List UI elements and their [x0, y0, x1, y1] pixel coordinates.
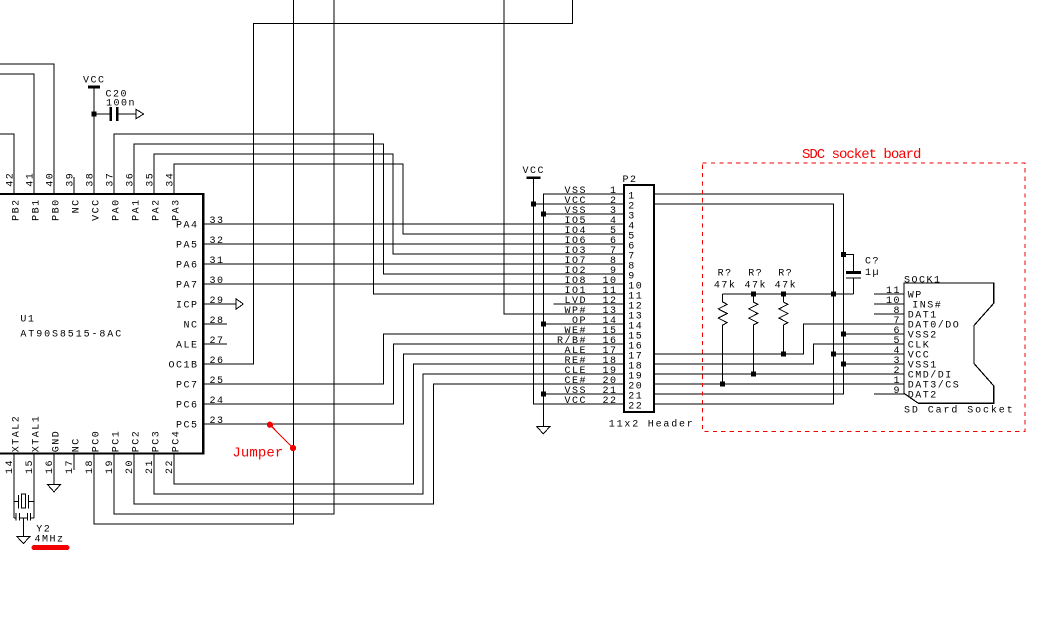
node junction pin38/C20: [92, 112, 97, 117]
node junction R2 bottom: [751, 372, 756, 377]
wire P2 row 12 LVD stub: [553, 303, 622, 305]
node junction VCC row 2: [531, 202, 536, 207]
svg-text:PB0: PB0: [52, 198, 63, 221]
svg-text:24: 24: [210, 396, 225, 407]
svg-text:26: 26: [210, 356, 225, 367]
capacitor plates of resonator left: [16, 513, 19, 520]
svg-text:ALE: ALE: [176, 341, 199, 352]
node junction VSS / VSS1: [841, 362, 846, 367]
wire socket VSS2 from VSS rail: [843, 333, 904, 335]
wire P2 row 3 VSS: [543, 213, 623, 215]
wire PC3 pin 21 to header CLE row 19: [154, 374, 623, 494]
wire SOCK1 WP stub: [874, 293, 904, 295]
node junction VCC / socket VCC: [831, 352, 836, 357]
svg-text:22: 22: [603, 396, 618, 407]
svg-text:4MHz: 4MHz: [35, 535, 65, 546]
wire C? top lead: [843, 254, 853, 271]
jumper dot on PC5 wire: [267, 422, 273, 428]
red underline below 4MHz: [34, 545, 67, 550]
svg-text:32: 32: [210, 236, 225, 247]
wire NC pin 39 stub: [73, 177, 75, 194]
wire PA0 pin 37 to header IO1 row 11: [114, 134, 623, 294]
wire PA4 pin 33 to header IO5 row 4: [203, 223, 623, 225]
node junction VSS / C? top: [841, 252, 846, 257]
wire SOCK1 DAT2 stub: [874, 393, 904, 395]
svg-text:SD Card Socket: SD Card Socket: [904, 405, 1015, 417]
svg-text:1µ: 1µ: [865, 268, 880, 279]
wire PA3 pin 34 to header IO4 row 5: [174, 164, 623, 234]
wire VSS rail left of P2 rows 1-21 to ground: [543, 194, 623, 427]
jumper dot on PC0 wire: [290, 445, 296, 451]
svg-text:22: 22: [628, 402, 643, 413]
wire PC6 pin 24 to header R/B# row 16: [203, 344, 623, 404]
node junction VSS row 21: [541, 392, 546, 397]
svg-text:9: 9: [894, 386, 902, 397]
svg-text:PA6: PA6: [176, 261, 199, 272]
wire ALE pin 27 stub: [203, 343, 227, 345]
ground arrow at pin 16: [48, 485, 61, 492]
wire P2 row 19 right to socket CMD/DI: [655, 373, 904, 375]
ground arrow below P2: [537, 427, 550, 434]
svg-text:39: 39: [66, 172, 77, 187]
svg-text:PA0: PA0: [112, 198, 123, 221]
wire VCC pin 38 up to VCC symbol: [93, 87, 95, 194]
open arrow at C20 right: [136, 109, 143, 118]
wire P2 row 21 VSS: [543, 393, 623, 395]
svg-text:PC0: PC0: [92, 430, 103, 453]
capacitor C? plate thin: [846, 277, 861, 279]
svg-text:PA4: PA4: [176, 221, 199, 232]
wire XTAL2 pin 14 to resonator: [13, 454, 15, 519]
IC U1 AT90S8515-8AC body: [0, 194, 203, 454]
node junction R3 top: [781, 292, 786, 297]
svg-text:PB1: PB1: [32, 198, 43, 221]
svg-text:DAT2: DAT2: [908, 391, 938, 402]
svg-text:30: 30: [210, 276, 225, 287]
svg-text:R?: R?: [718, 268, 733, 279]
wire PB1 pin 41 to left edge: [0, 74, 34, 194]
svg-text:PC4: PC4: [172, 430, 183, 453]
wire P2 row 18 right to socket CLK: [655, 344, 904, 364]
SDC socket board dashed outline: [703, 163, 1025, 432]
wire PB2 pin 42 to left edge: [0, 134, 14, 194]
svg-text:47k: 47k: [775, 279, 798, 291]
wire socket VSS1 from VSS rail: [843, 363, 904, 365]
wire PC2 pin 20 to header CE# row 20: [134, 384, 623, 504]
wire resonator ground rail: [14, 517, 34, 519]
wire PC0 pin 18 up over top edge: [94, 0, 294, 524]
svg-text:41: 41: [26, 172, 37, 187]
crystal Y2 right plate: [27, 495, 29, 509]
wire P2 row 13 WP# up over top edge: [504, 0, 623, 314]
wire PC1 pin 19 up over top edge: [114, 0, 334, 514]
svg-text:PC6: PC6: [176, 401, 199, 412]
svg-text:Jumper: Jumper: [232, 445, 283, 461]
wire GND pin 16 stub: [53, 454, 55, 485]
svg-text:ICP: ICP: [176, 301, 199, 312]
wire pull-up rail: [723, 293, 854, 295]
open arrow at ICP pin 29: [236, 299, 243, 310]
svg-text:AT90S8515-8AC: AT90S8515-8AC: [20, 330, 123, 341]
svg-text:VCC: VCC: [83, 76, 106, 87]
wire NC pin 17 stub: [73, 454, 75, 471]
wire P2 row 2 VCC: [533, 203, 622, 205]
node junction VSS row 14 OP: [541, 322, 546, 327]
svg-text:33: 33: [210, 216, 225, 227]
wire P2 row 20 right to socket DAT3/CS: [655, 383, 904, 385]
wire resonator center to ground: [22, 518, 24, 536]
crystal Y2 left plate: [17, 495, 19, 509]
connector P2 box: [624, 185, 654, 412]
node junction VCC / pull-up rail: [831, 292, 836, 297]
svg-text:100n: 100n: [106, 99, 136, 110]
svg-text:XTAL2: XTAL2: [12, 415, 23, 453]
svg-text:NC: NC: [183, 321, 198, 332]
svg-text:23: 23: [210, 416, 225, 427]
svg-text:40: 40: [46, 172, 57, 187]
node junction VSS / VSS2: [841, 332, 846, 337]
svg-text:27: 27: [210, 336, 225, 347]
svg-text:PA2: PA2: [152, 198, 163, 221]
svg-text:OC1B: OC1B: [168, 361, 198, 372]
svg-text:25: 25: [210, 376, 225, 387]
wire SOCK1 INS# stub: [874, 303, 904, 305]
VCC symbol above P2: [526, 176, 540, 179]
svg-text:PB2: PB2: [12, 198, 23, 221]
svg-text:28: 28: [210, 316, 225, 327]
wire C20 right lead: [117, 113, 136, 115]
wire PA2 pin 35 to header IO3 row 7: [154, 154, 623, 254]
wire C? bottom lead: [853, 278, 855, 294]
svg-text:P2: P2: [623, 175, 638, 186]
svg-text:C?: C?: [865, 257, 880, 268]
svg-text:34: 34: [166, 172, 177, 187]
node junction R2 top: [751, 292, 756, 297]
svg-text:NC: NC: [72, 437, 83, 452]
capacitor C20 plates: [111, 107, 118, 121]
svg-text:PA7: PA7: [176, 281, 199, 292]
svg-text:VCC: VCC: [522, 166, 545, 177]
capacitor plates of resonator right: [27, 513, 30, 520]
SOCK1 socket body: [904, 283, 994, 403]
node junction R3 bottom: [781, 352, 786, 357]
crystal Y2 body: [22, 494, 26, 508]
svg-text:NC: NC: [72, 198, 83, 213]
wire OC1B pin 26 up over top edge: [203, 0, 573, 364]
wire SOCK1 DAT1 stub: [874, 313, 904, 315]
svg-text:37: 37: [106, 172, 117, 187]
svg-text:PC1: PC1: [112, 430, 123, 453]
svg-text:PC7: PC7: [176, 381, 199, 392]
svg-text:XTAL1: XTAL1: [32, 415, 43, 453]
svg-text:PA5: PA5: [176, 241, 199, 252]
capacitor C? plate thick: [846, 271, 861, 274]
wire ICP pin 29 stub: [203, 303, 236, 305]
resistor R2 47k: [749, 294, 758, 374]
jumper annotation line: [270, 425, 293, 448]
wire PC4 pin 22 to header RE# row 18: [174, 364, 623, 484]
svg-text:38: 38: [86, 172, 97, 187]
svg-text:47k: 47k: [745, 279, 768, 291]
wire PC7 pin 25 to header WE# row 15: [203, 334, 623, 384]
svg-text:31: 31: [210, 256, 225, 267]
node junction VSS row 3: [541, 212, 546, 217]
svg-text:PC2: PC2: [132, 430, 143, 453]
svg-text:VCC: VCC: [565, 396, 588, 407]
svg-text:U1: U1: [20, 314, 35, 325]
wire NC pin 28 stub: [203, 323, 227, 325]
svg-text:SOCK1: SOCK1: [904, 275, 942, 286]
svg-text:29: 29: [210, 296, 225, 307]
wire PC5 pin 23 to header ALE row 17: [203, 354, 623, 424]
svg-text:VCC: VCC: [92, 198, 103, 221]
wire P2 row 1 VSS right to SDC board: [655, 194, 844, 394]
svg-text:42: 42: [6, 172, 17, 187]
svg-text:11x2 Header: 11x2 Header: [609, 419, 695, 431]
wire XTAL1 pin 15 to resonator: [33, 454, 35, 519]
svg-text:PA3: PA3: [172, 198, 183, 221]
wire VCC rail left of P2 rows 2-22: [533, 178, 622, 404]
wire C20 left lead: [94, 113, 110, 115]
ground arrow below Y2: [17, 537, 30, 544]
VCC symbol at U1 pin 38: [88, 86, 100, 89]
svg-text:R?: R?: [778, 268, 793, 279]
svg-text:SDC socket board: SDC socket board: [802, 147, 921, 163]
crystal Y2 left lead: [14, 501, 18, 503]
svg-text:R?: R?: [748, 268, 763, 279]
wire PA5 pin 32 to header IO6 row 6: [203, 243, 623, 245]
svg-text:36: 36: [126, 172, 137, 187]
svg-text:47k: 47k: [714, 279, 737, 291]
resistor R3 47k: [779, 294, 788, 354]
wire socket VCC from VCC rail: [833, 353, 904, 355]
wire PA1 pin 36 to header IO2 row 9: [134, 144, 623, 274]
svg-text:PA1: PA1: [132, 198, 143, 221]
crystal Y2 right lead: [28, 501, 34, 503]
wire P2 row 17 right to socket DAT0/DO: [655, 324, 904, 354]
wire P2 row 14 OP: [543, 323, 623, 325]
wire PA7 pin 30 to header IO8 row 10: [203, 283, 623, 285]
wire PA6 pin 31 to header IO7 row 8: [203, 263, 623, 265]
wire PB0 pin 40 to left edge: [0, 64, 54, 194]
wire P2 row 2 VCC right to SDC board: [655, 204, 834, 404]
resistor R1 47k: [718, 294, 727, 384]
node junction R1 bottom: [720, 382, 725, 387]
svg-text:35: 35: [146, 172, 157, 187]
svg-text:PC3: PC3: [152, 430, 163, 453]
svg-text:GND: GND: [52, 430, 63, 453]
